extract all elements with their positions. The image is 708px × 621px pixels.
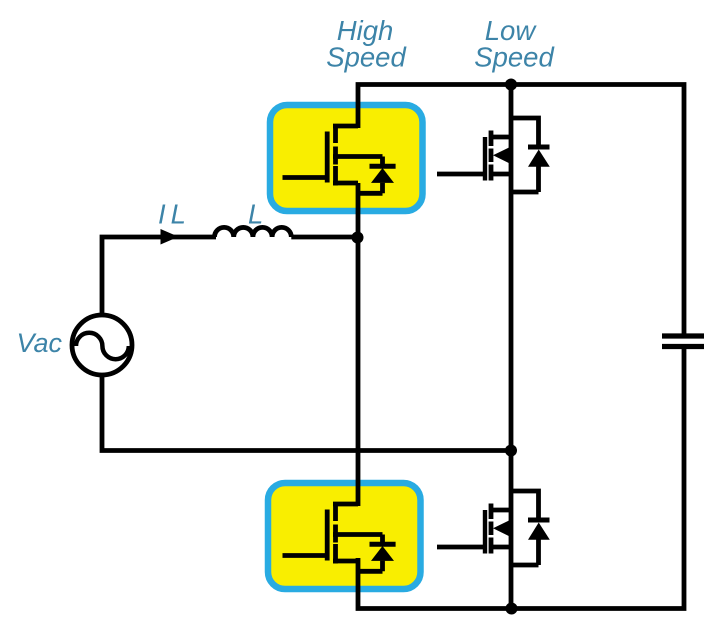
wire bottom rail from lower high-speed source to capacitor branch [358, 349, 684, 609]
body diode D1 (inside upper highlight box) [370, 166, 396, 183]
node junction at top rail / low-speed leg [505, 79, 517, 91]
AC source Vac [72, 315, 132, 375]
wire top rail from high-speed leg to capacitor branch [358, 85, 684, 335]
label High Speed [326, 15, 407, 73]
node junction at AC return / low-speed midpoint [505, 445, 517, 457]
node junction at inductor / high-speed midpoint [352, 232, 364, 244]
wire high-speed leg mid segment (upper source to lower drain) [356, 183, 361, 506]
highlight box upper (yellow with cyan border) [270, 105, 423, 211]
wire low-speed leg [509, 85, 514, 609]
node junction at bottom rail / low-speed leg [506, 603, 518, 615]
wire from Vac bottom to low-speed node [102, 374, 511, 451]
wire from inductor to high-speed node [291, 235, 358, 240]
current arrow IL [161, 229, 179, 245]
MOSFET Q3 low-speed top [437, 131, 511, 181]
svg-text:Speed: Speed [474, 42, 555, 73]
capacitor C1 [662, 336, 704, 347]
body diode D4 (low-speed bottom) [511, 491, 550, 565]
wire from Vac top to inductor [102, 237, 216, 314]
MOSFET Q4 low-speed bottom [437, 504, 511, 554]
svg-text:L: L [248, 199, 263, 230]
label Low Speed [474, 15, 555, 73]
svg-text:IL: IL [158, 199, 191, 230]
highlight box lower (yellow with cyan border) [268, 483, 421, 589]
inductor L [215, 227, 292, 237]
MOSFET Q1 high-speed top [283, 124, 383, 193]
body diode D3 (low-speed top) [511, 118, 550, 192]
body diode D2 (inside lower highlight box) [370, 544, 396, 561]
svg-text:Vac: Vac [17, 328, 63, 358]
svg-text:Speed: Speed [326, 42, 407, 73]
MOSFET Q2 high-speed bottom [283, 502, 383, 571]
